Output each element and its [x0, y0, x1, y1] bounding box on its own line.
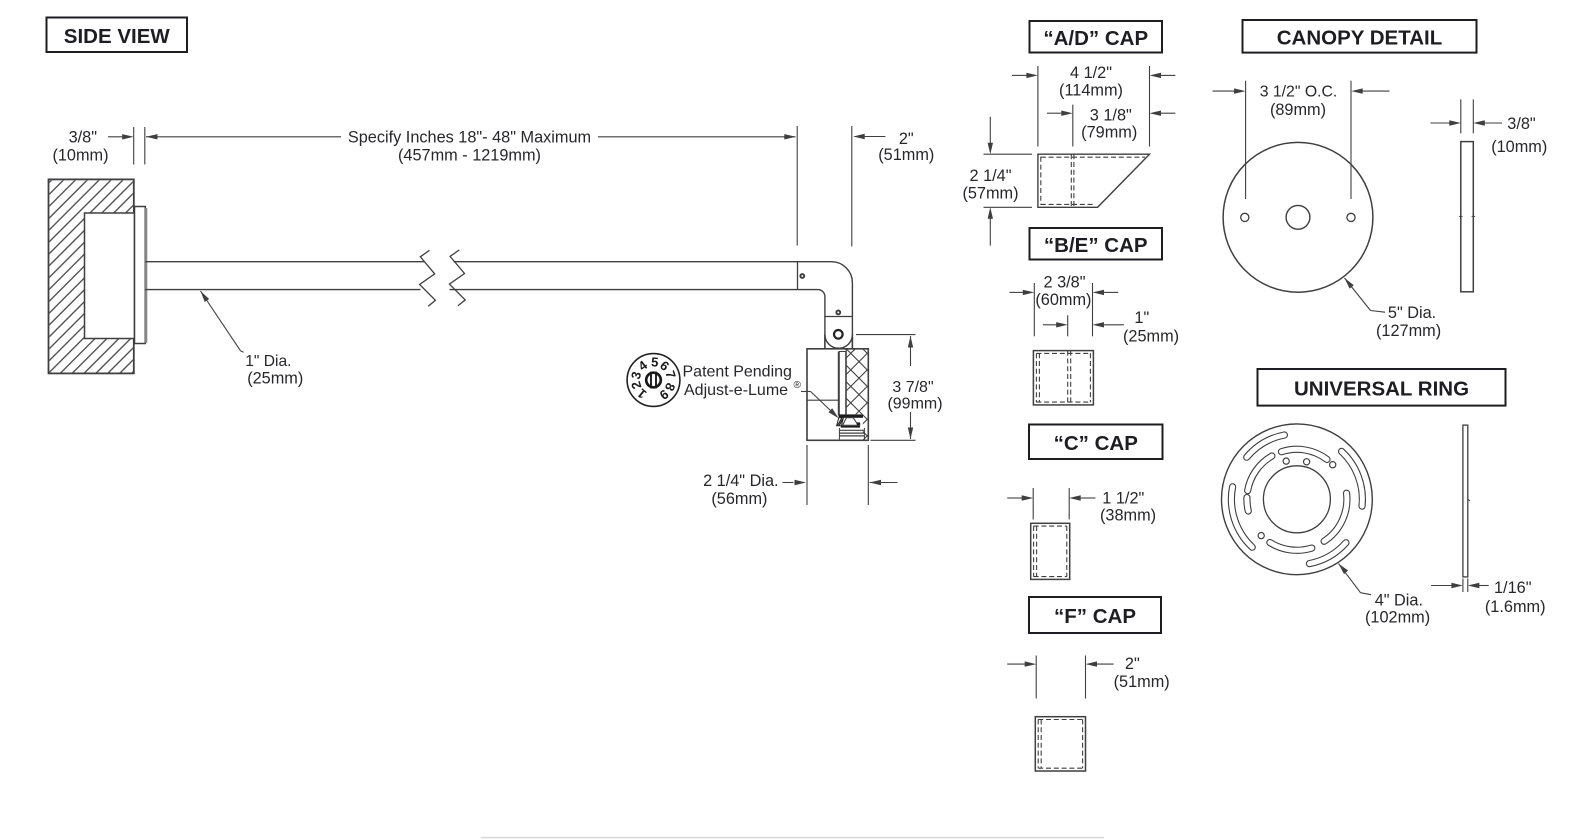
svg-text:(457mm - 1219mm): (457mm - 1219mm): [398, 146, 541, 164]
svg-text:UNIVERSAL RING: UNIVERSAL RING: [1294, 378, 1469, 401]
svg-text:(57mm): (57mm): [962, 185, 1018, 203]
svg-text:(10mm): (10mm): [1491, 138, 1547, 156]
svg-text:(102mm): (102mm): [1365, 608, 1430, 626]
svg-text:3/8": 3/8": [69, 129, 98, 147]
svg-text:(25mm): (25mm): [1123, 328, 1179, 346]
svg-text:3 1/2" O.C.: 3 1/2" O.C.: [1260, 83, 1338, 100]
svg-text:CANOPY DETAIL: CANOPY DETAIL: [1277, 27, 1443, 50]
svg-text:2 1/4": 2 1/4": [970, 167, 1012, 185]
svg-text:Adjust-e-Lume: Adjust-e-Lume: [684, 382, 788, 399]
svg-text:1": 1": [1134, 309, 1149, 327]
svg-text:5" Dia.: 5" Dia.: [1388, 304, 1436, 322]
svg-text:“A/D” CAP: “A/D” CAP: [1043, 27, 1148, 50]
svg-text:1/16": 1/16": [1494, 579, 1532, 597]
svg-text:(114mm): (114mm): [1059, 82, 1123, 100]
svg-text:Specify Inches 18"- 48" Maximu: Specify Inches 18"- 48" Maximum: [348, 129, 591, 147]
svg-text:(10mm): (10mm): [52, 146, 108, 164]
svg-text:(60mm): (60mm): [1035, 291, 1091, 309]
svg-text:Patent Pending: Patent Pending: [683, 364, 792, 381]
svg-text:(79mm): (79mm): [1081, 124, 1137, 142]
svg-text:2": 2": [1125, 655, 1140, 673]
svg-text:(56mm): (56mm): [711, 490, 767, 508]
svg-text:4 1/2": 4 1/2": [1070, 64, 1112, 82]
svg-text:®: ®: [794, 380, 802, 391]
svg-text:(99mm): (99mm): [887, 396, 942, 413]
svg-text:(51mm): (51mm): [878, 146, 934, 164]
svg-text:(127mm): (127mm): [1376, 322, 1441, 340]
svg-text:“F” CAP: “F” CAP: [1054, 605, 1136, 628]
svg-text:(38mm): (38mm): [1100, 506, 1156, 524]
svg-text:1 1/2": 1 1/2": [1102, 490, 1144, 508]
svg-text:(1.6mm): (1.6mm): [1485, 598, 1546, 616]
svg-text:2 1/4" Dia.: 2 1/4" Dia.: [703, 472, 778, 490]
svg-text:1" Dia.: 1" Dia.: [245, 353, 291, 370]
svg-text:3 1/8": 3 1/8": [1090, 107, 1132, 125]
svg-text:(89mm): (89mm): [1270, 101, 1326, 119]
svg-text:2 3/8": 2 3/8": [1044, 273, 1086, 291]
svg-text:“C” CAP: “C” CAP: [1054, 432, 1138, 455]
svg-text:3/8": 3/8": [1507, 115, 1536, 133]
svg-text:(51mm): (51mm): [1114, 673, 1170, 691]
svg-text:“B/E” CAP: “B/E” CAP: [1044, 234, 1148, 257]
svg-text:(25mm): (25mm): [247, 370, 303, 388]
svg-text:4" Dia.: 4" Dia.: [1375, 591, 1423, 609]
svg-text:SIDE VIEW: SIDE VIEW: [64, 25, 171, 48]
svg-text:3 7/8": 3 7/8": [892, 379, 933, 396]
